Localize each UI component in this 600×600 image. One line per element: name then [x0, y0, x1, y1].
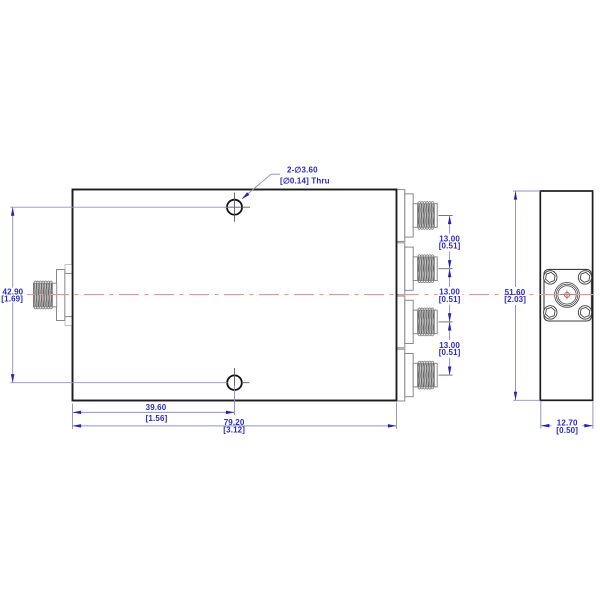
connector J3 bushing: [405, 247, 413, 290]
connector J4 threaded barrel: [413, 310, 417, 334]
dim 79.20 line: [73, 425, 397, 427]
svg-text:[0.50]: [0.50]: [556, 426, 578, 435]
connector J5 bushing: [405, 354, 413, 397]
dim 79.20 extension line: [396, 403, 398, 430]
dim 79.20 arrow right: [388, 424, 397, 428]
mounting hole bottom: [227, 375, 242, 390]
dim 42.90 arrow up: [11, 207, 15, 216]
side view center cross: [560, 294, 576, 296]
side view body outline: [540, 191, 592, 400]
dim 51.60 line: [515, 191, 517, 287]
dim 39.60 extension lines: [72, 404, 74, 430]
connector J5 threaded barrel: [413, 363, 417, 387]
svg-text:[2.03]: [2.03]: [504, 295, 526, 304]
svg-text:[3.12]: [3.12]: [223, 426, 245, 435]
svg-text:[0.51]: [0.51]: [439, 295, 461, 304]
dim 39.60 arrow right: [226, 411, 235, 415]
hole top crosshair: [234, 193, 236, 222]
svg-text:[1.56]: [1.56]: [146, 414, 168, 423]
flange screw top-left: [544, 271, 557, 284]
connector J1 threaded barrel: [52, 283, 56, 307]
connector J4 bushing: [405, 300, 413, 343]
center pin: [565, 292, 570, 297]
dim 42.90 line: [12, 207, 14, 287]
svg-text:[1.69]: [1.69]: [1, 295, 23, 304]
dim 12.70 line: [541, 425, 552, 427]
hole callout leader: [271, 173, 280, 175]
dim 51.60 arrow up: [514, 191, 517, 200]
side view flange plate: [544, 269, 591, 321]
dim 79.20 arrow left: [73, 424, 82, 428]
connector J2 threaded barrel: [413, 204, 417, 228]
svg-text:[∅0.14] Thru: [∅0.14] Thru: [280, 176, 330, 185]
connector J2 bushing: [405, 194, 413, 237]
dim 39.60 line: [73, 411, 235, 413]
connector J3 threaded barrel: [413, 257, 417, 281]
side view SMA face circles: [555, 283, 580, 308]
connector J3 hex flange: [397, 243, 405, 295]
centerline (red, dash-dot): [27, 294, 598, 296]
svg-text:[0.51]: [0.51]: [439, 348, 461, 357]
connector J5 hex flange: [397, 349, 405, 401]
connector J1 hex flange: [57, 270, 65, 321]
hole callout arrow: [242, 192, 250, 199]
svg-text:[0.51]: [0.51]: [439, 242, 461, 251]
dim 39.60 arrow left: [73, 411, 82, 415]
flange screw top-right: [578, 271, 591, 284]
dim 51.60 arrow down: [514, 392, 517, 401]
mounting hole top: [227, 200, 242, 215]
connector J2 hex flange: [397, 190, 405, 242]
dim 42.90 arrow down: [11, 374, 15, 383]
dim 12.70 extension lines: [540, 402, 542, 429]
dim 42.90 extension lines: [10, 206, 228, 208]
dim 12.70 arrow left: [541, 424, 550, 428]
dim 51.60 extension lines: [513, 190, 540, 192]
front view body outline: [73, 190, 397, 401]
connector J4 hex flange: [397, 296, 405, 348]
dim 13.00 line segments: [449, 216, 451, 234]
flange screw bottom-left: [544, 306, 557, 319]
white gap in centerline behind middle 13.00 text: [438, 290, 463, 301]
connector J1 boss (left, against body): [65, 265, 73, 326]
dim 12.70 arrow right: [584, 424, 593, 428]
svg-text:2-∅3.60: 2-∅3.60: [287, 166, 318, 175]
dim 13.00 extension lines from connectors: [439, 215, 453, 217]
hole bottom crosshair: [234, 368, 236, 390]
flange screw bottom-right: [578, 306, 591, 319]
svg-text:39.60: 39.60: [146, 403, 167, 412]
connector J1 bushing: [65, 273, 73, 316]
dim 13.00 arrows: [448, 216, 452, 225]
